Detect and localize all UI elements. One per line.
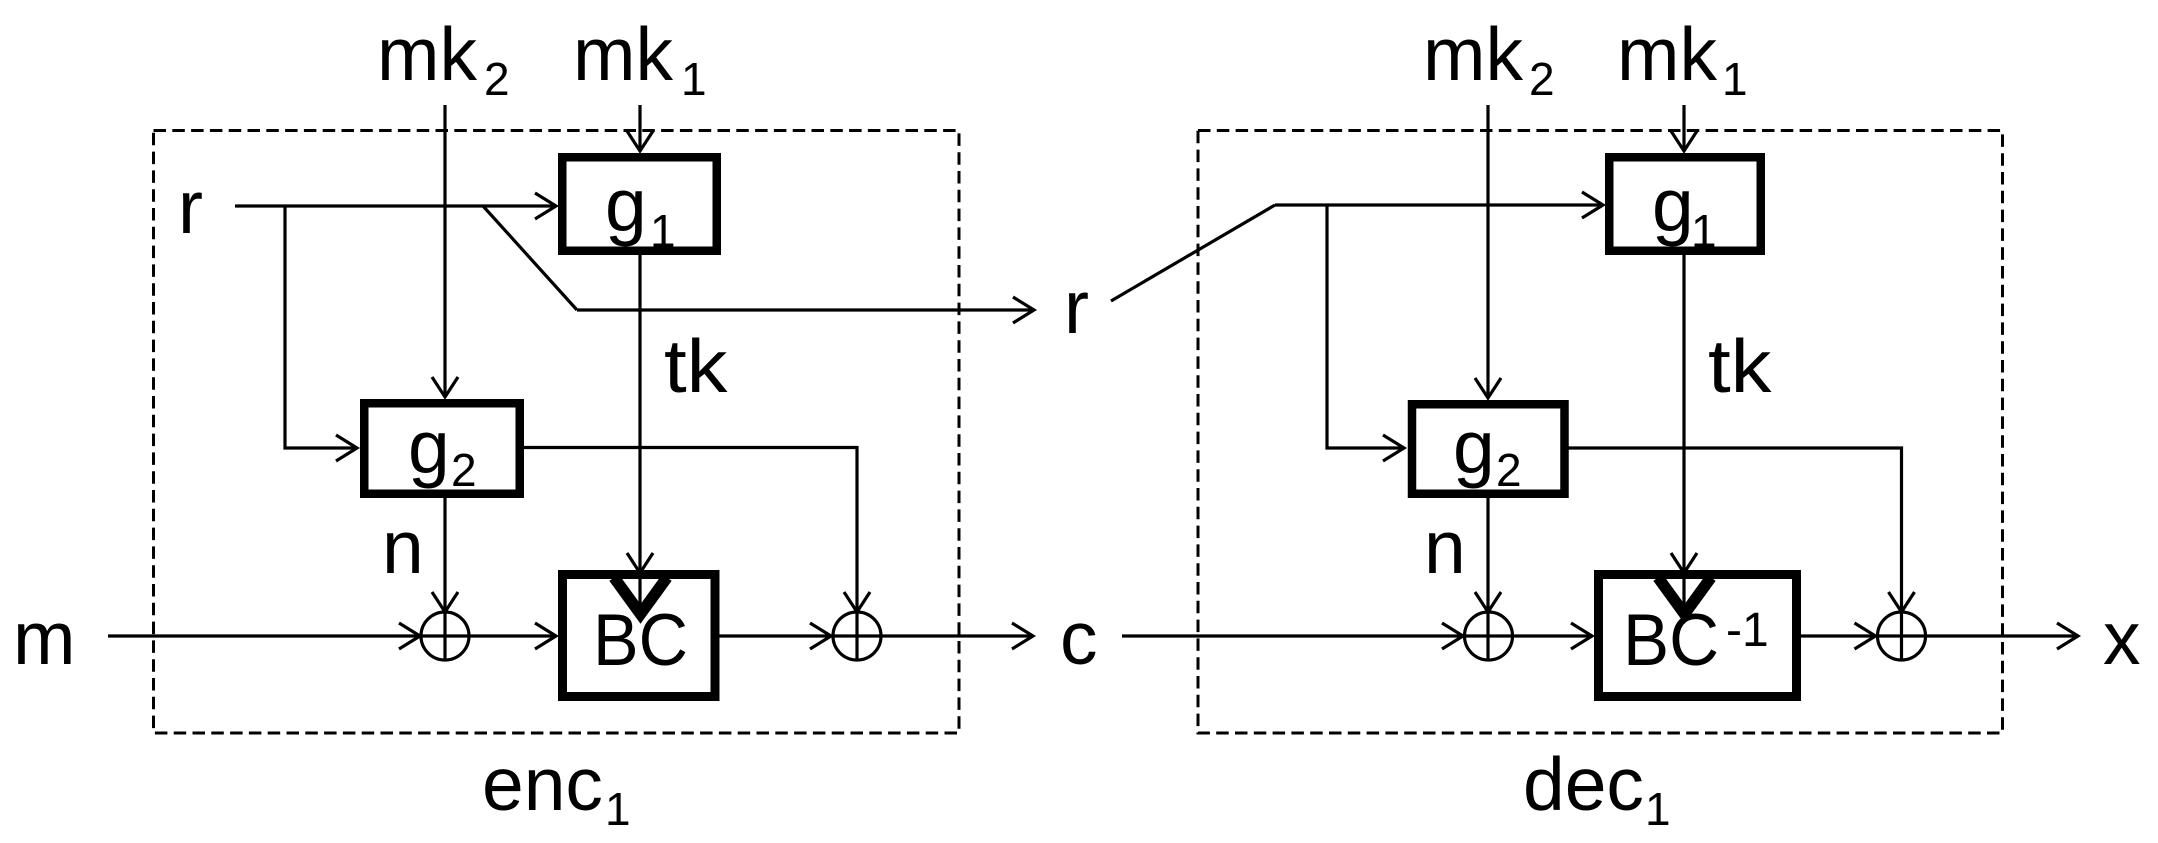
wire r branch down to g2 (dec) [1327,205,1404,461]
xor2 (enc) [833,612,881,660]
block g1 (enc) [562,157,717,257]
svg-text:1: 1 [1691,205,1717,257]
svg-text:c: c [1060,596,1098,680]
block g2 (enc) [364,403,520,496]
label mk1 (enc) [573,12,707,105]
wire g2 output right to xor2 (enc) [524,448,870,661]
svg-text:g: g [1652,163,1694,247]
svg-text:g: g [605,163,647,247]
wire c into xor1 (dec) [1122,623,1463,649]
svg-text:tk: tk [1708,324,1772,408]
wire mk2 vertical into g2 (dec) [1475,105,1501,398]
svg-text:2: 2 [1529,53,1555,105]
wire xor1 to BC-1 (dec) [1512,623,1592,649]
svg-text:enc: enc [482,742,603,826]
svg-text:g: g [1453,405,1495,489]
svg-text:1: 1 [650,205,676,257]
wire r horizontal into g1 (enc) [235,193,556,219]
svg-text:mk: mk [1423,12,1523,96]
block BC (enc) [563,575,716,697]
svg-text:1: 1 [681,53,707,105]
wire g1 output tk (enc) [627,255,653,615]
wire g2 output right to xor2 (dec) [1569,448,1915,661]
svg-text:x: x [2103,596,2141,680]
label tk (enc) [664,324,728,408]
wire r horizontal into g1 (dec) [1275,192,1603,218]
xor1 (enc) [421,612,469,660]
svg-text:1: 1 [1722,53,1748,105]
svg-text:r: r [178,165,203,249]
svg-text:mk: mk [573,12,673,96]
wire g1 output tk (dec) [1671,255,1697,615]
block g1 (dec) [1609,157,1761,257]
svg-text:n: n [1424,505,1466,589]
wire r output to dec (enc) [577,297,1034,323]
svg-text:g: g [408,405,450,489]
wire c output (enc) [882,623,1034,649]
svg-text:dec: dec [1523,742,1644,826]
svg-text:2: 2 [1496,444,1522,496]
svg-text:1: 1 [1645,783,1671,835]
wire mk1 vertical into g1 (enc) [627,105,653,151]
node c (between blocks) [1060,596,1098,680]
block g2 (dec) [1412,404,1565,496]
label mk2 (enc) [377,12,510,105]
xor2 (dec) [1878,612,1926,660]
dec1 dashed boundary [1198,131,2003,734]
label n (enc) [382,505,424,589]
svg-text:n: n [382,505,424,589]
wire x output (dec) [1925,623,2078,649]
svg-text:m: m [13,596,75,680]
wire mk1 vertical into g1 (dec) [1671,105,1697,151]
label mk2 (dec) [1423,12,1555,105]
wire xor1 to BC (enc) [469,623,557,649]
svg-text:1: 1 [605,783,631,835]
label n (dec) [1424,505,1466,589]
svg-text:mk: mk [377,12,477,96]
wire m into xor1 (enc) [108,623,420,649]
svg-text:r: r [1064,265,1089,349]
wire g2 output down to xor1 (dec) [1475,498,1501,661]
enc1 dashed boundary [154,131,960,734]
wire r branch down to g2 (enc) [285,206,357,461]
svg-text:2: 2 [484,53,510,105]
wire r diagonal tap (enc) [483,206,577,310]
label tk (dec) [1708,324,1772,408]
label enc1 [482,742,631,835]
wire mk2 vertical into g2 (enc) [432,105,458,397]
block BC-1 (dec) [1599,575,1797,697]
wire BC to xor2 (enc) [720,623,832,649]
label m (input) [13,596,75,680]
svg-text:2: 2 [451,444,477,496]
svg-text:-1: -1 [1726,604,1769,657]
svg-text:BC: BC [1623,600,1719,681]
xor1 (dec) [1465,612,1513,660]
svg-text:tk: tk [664,324,728,408]
svg-text:mk: mk [1617,12,1717,96]
tk bold V marker (enc BC) [614,578,667,615]
node x (output) [2103,596,2141,680]
label r (enc input) [178,165,203,249]
wire g2 output down to xor1 (enc) [432,498,458,661]
label mk1 (dec) [1617,12,1748,105]
node r (between blocks) [1064,265,1089,349]
wire BC-1 to xor2 (dec) [1801,623,1876,649]
tk bold V marker (dec BC-1) [1658,578,1711,615]
wire r diagonal into dec [1111,205,1275,301]
label dec1 [1523,742,1671,835]
